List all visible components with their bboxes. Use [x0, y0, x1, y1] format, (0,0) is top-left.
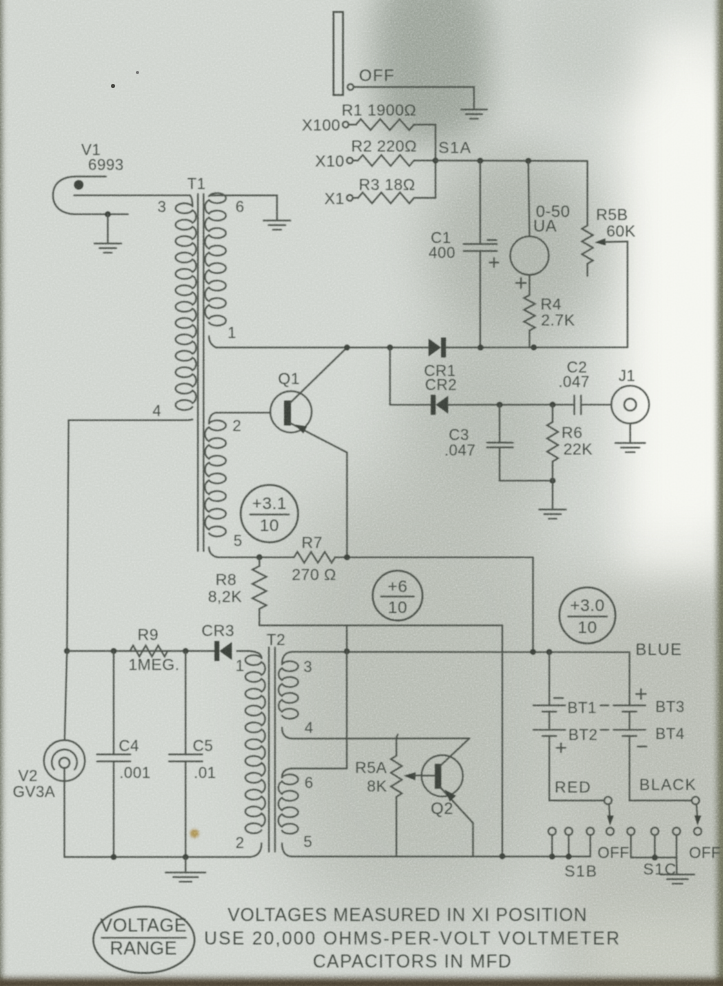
polarity BT4 minus small2 [601, 729, 609, 731]
label V1 [81, 142, 101, 159]
label T2 pin3 [304, 659, 313, 676]
label J1 [619, 368, 636, 385]
label Q2 [431, 800, 454, 818]
label T1 pin4 [153, 403, 162, 420]
ground at J1 [615, 443, 645, 452]
label T2 pin2 [236, 835, 245, 852]
label BT2 [568, 727, 597, 744]
label .047 C2 [558, 374, 589, 391]
label X100 [302, 118, 341, 135]
switch contact 3 [587, 828, 595, 836]
label R9 [137, 627, 158, 644]
wire S1C ground stub [676, 858, 678, 874]
terminal RED [604, 797, 612, 805]
node contact2 junction [566, 854, 572, 860]
wire C3 to R6 foot [500, 480, 553, 482]
label S1B [564, 864, 597, 881]
transistor Q2 base bar [435, 764, 442, 789]
label 60K [606, 224, 635, 241]
T2 secondary winding pins 3-4 [279, 652, 299, 739]
node S1A junction [433, 158, 439, 164]
polarity BT3 minus small [601, 704, 609, 706]
label 22K [563, 442, 592, 459]
label CR3 [202, 623, 235, 640]
switch S1 rotor bar [334, 12, 344, 95]
terminal X10 [347, 158, 353, 164]
node C5 tap [183, 648, 189, 654]
polarity C1 minus [488, 239, 497, 241]
wire T1 pin6 to ground [213, 195, 277, 219]
wire S1A rail [436, 161, 588, 226]
resistor R9 [130, 646, 168, 657]
wire R7 to battery rail [335, 557, 533, 651]
switch contact 1 [548, 828, 556, 836]
transistor Q1 emitter [290, 423, 347, 453]
label C3 [449, 427, 469, 444]
label BLUE [635, 641, 682, 659]
wiper R5A to Q2 base [404, 772, 422, 780]
node T1 pin4/V2 junction [64, 648, 70, 654]
label X10 [315, 154, 344, 171]
node contact1 junction [549, 854, 555, 860]
label T1 pin6 [236, 199, 245, 216]
label S1C [643, 862, 677, 879]
label T2 [266, 632, 285, 649]
switch contact 8 [694, 828, 702, 836]
wire contact1 stub [551, 835, 553, 856]
polarity meter plus [516, 278, 526, 288]
transistor Q2 base lead [422, 775, 435, 777]
label OFF S1C [689, 845, 721, 862]
diode CR1 [429, 338, 447, 358]
note line3 [313, 952, 512, 972]
wire range resistor bus [435, 125, 437, 198]
terminal BLACK [692, 797, 700, 805]
arrow BLACK to S1C [694, 804, 701, 825]
label BT4 [655, 726, 684, 743]
switch contact 7 [673, 828, 681, 836]
wire CR1 to meter net [446, 346, 628, 348]
wire pin3 tap to R8 rail [346, 625, 348, 651]
transistor Q1 circle [270, 391, 311, 432]
arrow RED to S1B [607, 804, 614, 825]
node meter tap [525, 158, 531, 164]
polarity BT3 plus [636, 689, 646, 699]
label GV3A [13, 784, 56, 801]
label S1A [438, 140, 471, 157]
label 1MEG [128, 657, 179, 674]
label 6993 [88, 157, 124, 174]
terminal X1 [347, 195, 353, 201]
resistor R4 [524, 275, 535, 347]
label T1 pin5 [234, 533, 243, 550]
T1 secondary winding pins 6-1 [205, 193, 226, 347]
node R8 top junction [256, 554, 262, 560]
label BLACK [639, 777, 696, 794]
switch contact 4 [606, 828, 614, 836]
transistor Q2 collector [440, 738, 469, 766]
wire OFF to ground [354, 87, 474, 109]
label C4 [119, 738, 139, 755]
node C1 bottom junction [478, 345, 484, 351]
node R4 bottom junction [531, 344, 537, 350]
label CR1 [424, 363, 456, 380]
resistor R3 [353, 192, 436, 203]
label 2.7K [541, 313, 575, 330]
transformer T2 core [269, 647, 275, 851]
note line1 [228, 905, 588, 925]
wiper R5B [595, 238, 628, 347]
label BT1 [567, 700, 596, 717]
label OFF top [359, 67, 395, 85]
transistor Q2 emitter [440, 787, 473, 823]
label T1 pin2 [233, 418, 242, 435]
label Q1 [278, 371, 300, 388]
node R7 rail junction [530, 649, 536, 655]
label CR2 [425, 377, 457, 394]
label R8 [215, 572, 236, 589]
wire R8 bottom rail [259, 625, 502, 855]
voltage bubble +6/10 [373, 571, 423, 621]
label R2 220Ω [351, 139, 417, 156]
node pin6 feed junction [344, 648, 350, 654]
label T1 [187, 176, 206, 193]
meter M1 0-50UA [510, 236, 549, 275]
label T1 pin1 [228, 325, 237, 342]
ground at S1A OFF [461, 110, 487, 119]
label R3 18Ω [359, 177, 415, 194]
jack J1 [611, 386, 649, 424]
voltage range divider [102, 937, 187, 939]
label T2 pin4 [305, 720, 314, 737]
transformer T1 core [198, 194, 204, 551]
ground at V1 [94, 244, 121, 253]
node CR2 branch junction [387, 345, 393, 351]
node C1 tap [477, 158, 483, 164]
label C1 [431, 230, 451, 247]
battery BT2 [533, 712, 565, 801]
node C4 bottom junction [111, 854, 117, 860]
label RANGE [110, 938, 177, 959]
wire T1 pin5 to R7 [218, 556, 294, 558]
label 8.2K [208, 589, 242, 606]
ground at S1C [661, 875, 695, 884]
label 0-50 [536, 203, 570, 221]
label X1 [324, 191, 344, 208]
capacitor C3 [487, 405, 513, 481]
label R6 [561, 425, 582, 442]
node BT1 column junction [546, 649, 552, 655]
label R5A [355, 760, 387, 777]
label T2 pin6 [305, 775, 314, 792]
ground at C5 [166, 873, 206, 882]
wire contact2 stub [568, 835, 570, 856]
node Q1 collector junction [344, 345, 350, 351]
label .001 [119, 765, 150, 782]
wire T1 pin1 rail [216, 347, 429, 349]
resistor R2 [353, 155, 436, 166]
resistor R6 [547, 405, 558, 481]
capacitor C2 [574, 396, 611, 415]
label VOLTAGE [100, 915, 187, 936]
wire RED lead [549, 800, 604, 802]
tube V1 cathode dot [74, 180, 84, 190]
switch S1C bracket [631, 835, 677, 857]
resistor R8 [252, 557, 266, 625]
resistor R1 [349, 119, 436, 130]
T2 primary winding pins 1-2 [245, 651, 265, 857]
wire bottom rail [292, 835, 590, 856]
voltage bubble +3.1/10 [241, 485, 298, 542]
node C3 tap [497, 402, 503, 408]
label T2 pin5 [304, 834, 313, 851]
node R6 tap [550, 402, 556, 408]
label C5 [193, 738, 213, 755]
wire T1 pin2 to Q1 base [216, 412, 270, 414]
wire R9 rail [67, 650, 214, 652]
node C5 ground junction [183, 854, 189, 860]
T2 secondary winding pins 6-5 [278, 769, 298, 857]
capacitor C4 [97, 651, 130, 857]
wire CR2 output rail [448, 404, 574, 406]
capacitor C5 [169, 651, 202, 857]
transistor Q1 collector [290, 348, 347, 404]
T1 secondary winding pins 2-5 [205, 413, 226, 558]
switch contact 5 [627, 828, 635, 836]
wire V1 plate to T1 pin3 [74, 194, 190, 196]
terminal X100 [343, 122, 349, 128]
battery BT1 [533, 652, 565, 712]
wire bottom left rail [64, 856, 250, 858]
label .01 [194, 765, 216, 782]
resistor R7 [294, 552, 335, 563]
wire C5 ground stub [185, 857, 187, 872]
node R6 bottom junction [550, 478, 556, 484]
T1 primary winding pins 3-4 [176, 195, 197, 420]
wire CR3 to T2 pin1 [237, 650, 248, 652]
wire J1 ground stub [629, 424, 631, 443]
label R1 1900Ω [342, 103, 417, 120]
wire Q2 emitter drop [472, 823, 474, 857]
label V2 [18, 768, 38, 785]
switch contact 2 [565, 828, 573, 836]
voltage range oval [93, 907, 194, 973]
potentiometer R5A [391, 735, 402, 857]
diode CR2 [431, 395, 449, 415]
wire Q1 emitter drop [346, 453, 348, 558]
switch contact 6 [651, 828, 659, 836]
polarity BT4 minus [638, 746, 647, 748]
polarity C1 plus [490, 258, 499, 267]
label UA [533, 218, 557, 236]
polarity BT2 plus [557, 743, 566, 752]
diode CR3 [214, 641, 232, 661]
node R8 rail bottom junction [499, 853, 505, 859]
battery BT3 [614, 704, 646, 712]
wire BLACK lead [630, 800, 692, 802]
wire CR2 branch [390, 348, 431, 405]
wire meter top [528, 161, 529, 236]
ground at C3/R6 [539, 510, 566, 519]
transistor Q2 circle [422, 755, 463, 796]
wire V1 ground stub [107, 214, 109, 242]
wire BLUE rail [292, 652, 630, 704]
node Q1 emitter junction [344, 554, 350, 560]
lamp V2 [44, 651, 85, 857]
label BT3 [655, 699, 684, 716]
potentiometer R5B [582, 226, 593, 277]
label T1 pin3 [158, 199, 167, 216]
note line2 [204, 929, 621, 949]
tube V1 loop [53, 177, 128, 215]
wire pin6 feed [292, 651, 347, 768]
node C4 tap [111, 648, 117, 654]
terminal OFF (S1A) [348, 84, 354, 90]
label R7 [301, 535, 322, 552]
label 270Ω [292, 567, 337, 584]
label T2 pin1 [236, 658, 245, 675]
wire T1 pin4 down left side [67, 420, 186, 651]
wire T2 pin4 to Q2 collector [292, 737, 469, 739]
transistor Q1 base bar [284, 401, 291, 426]
label .047 C3 [444, 443, 475, 460]
node S1C center junction [652, 855, 658, 861]
voltage bubble +3.0/10 [559, 587, 615, 643]
label C2 [567, 360, 587, 377]
label R5B [596, 207, 628, 224]
label 400 value [429, 245, 456, 262]
ground at T1 pin6 [264, 221, 291, 230]
node V1 ground tap [105, 211, 111, 217]
label 8K [367, 779, 387, 796]
battery BT4 [614, 712, 646, 801]
label RED [555, 780, 592, 797]
polarity BT1 minus [554, 697, 563, 699]
wire to signal ground [552, 481, 554, 509]
label R4 [540, 297, 561, 314]
label OFF S1B [598, 845, 630, 862]
capacitor C1 [464, 161, 498, 348]
